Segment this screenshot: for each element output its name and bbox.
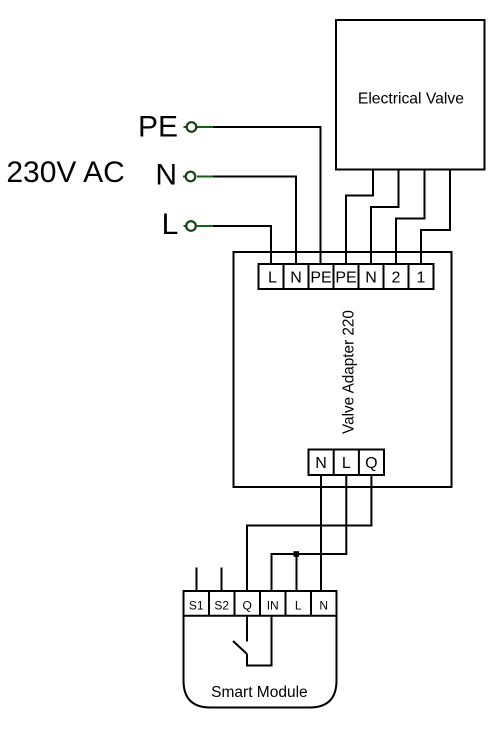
svg-text:Valve Adapter 220: Valve Adapter 220 bbox=[341, 310, 358, 434]
svg-text:N: N bbox=[319, 598, 328, 612]
svg-text:N: N bbox=[290, 270, 302, 287]
svg-text:N: N bbox=[315, 455, 327, 472]
svg-text:230V AC: 230V AC bbox=[6, 156, 124, 189]
svg-text:PE: PE bbox=[335, 270, 356, 287]
svg-text:S2: S2 bbox=[214, 598, 229, 612]
svg-text:N: N bbox=[155, 158, 177, 191]
svg-text:L: L bbox=[295, 598, 302, 612]
svg-text:IN: IN bbox=[267, 598, 279, 612]
svg-text:L: L bbox=[162, 208, 179, 241]
svg-text:1: 1 bbox=[417, 270, 426, 287]
svg-text:L: L bbox=[268, 270, 277, 287]
svg-text:Q: Q bbox=[365, 455, 377, 472]
svg-text:N: N bbox=[365, 270, 377, 287]
svg-text:PE: PE bbox=[138, 110, 178, 143]
svg-text:2: 2 bbox=[392, 270, 401, 287]
svg-text:PE: PE bbox=[310, 270, 331, 287]
svg-text:L: L bbox=[342, 455, 351, 472]
svg-text:S1: S1 bbox=[189, 598, 204, 612]
svg-text:Q: Q bbox=[243, 598, 252, 612]
svg-text:Smart Module: Smart Module bbox=[211, 684, 307, 701]
svg-text:Electrical Valve: Electrical Valve bbox=[358, 90, 464, 107]
